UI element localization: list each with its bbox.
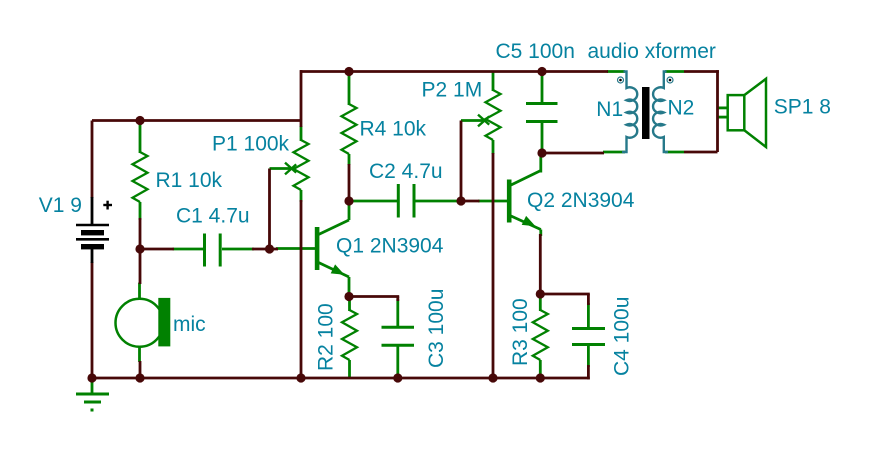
svg-text:N2: N2 <box>668 97 695 120</box>
svg-text:P1 100k: P1 100k <box>212 133 290 156</box>
svg-text:Q2 2N3904: Q2 2N3904 <box>527 189 635 212</box>
svg-text:audio xformer: audio xformer <box>588 40 716 63</box>
svg-text:N1: N1 <box>596 98 623 121</box>
svg-text:mic: mic <box>173 313 206 336</box>
svg-text:C4 100u: C4 100u <box>611 297 634 376</box>
svg-text:R4 10k: R4 10k <box>360 118 427 141</box>
svg-text:C1 4.7u: C1 4.7u <box>176 205 250 228</box>
svg-text:R2 100: R2 100 <box>315 303 338 371</box>
svg-text:SP1 8: SP1 8 <box>774 96 831 119</box>
svg-text:R3 100: R3 100 <box>509 298 532 366</box>
svg-text:V1 9: V1 9 <box>39 194 82 217</box>
svg-text:C5 100n: C5 100n <box>496 40 575 63</box>
svg-text:C2 4.7u: C2 4.7u <box>369 160 443 183</box>
svg-text:R1 10k: R1 10k <box>156 169 223 192</box>
svg-text:Q1 2N3904: Q1 2N3904 <box>336 235 444 258</box>
svg-text:C3 100u: C3 100u <box>425 289 448 368</box>
svg-text:P2 1M: P2 1M <box>422 79 483 102</box>
